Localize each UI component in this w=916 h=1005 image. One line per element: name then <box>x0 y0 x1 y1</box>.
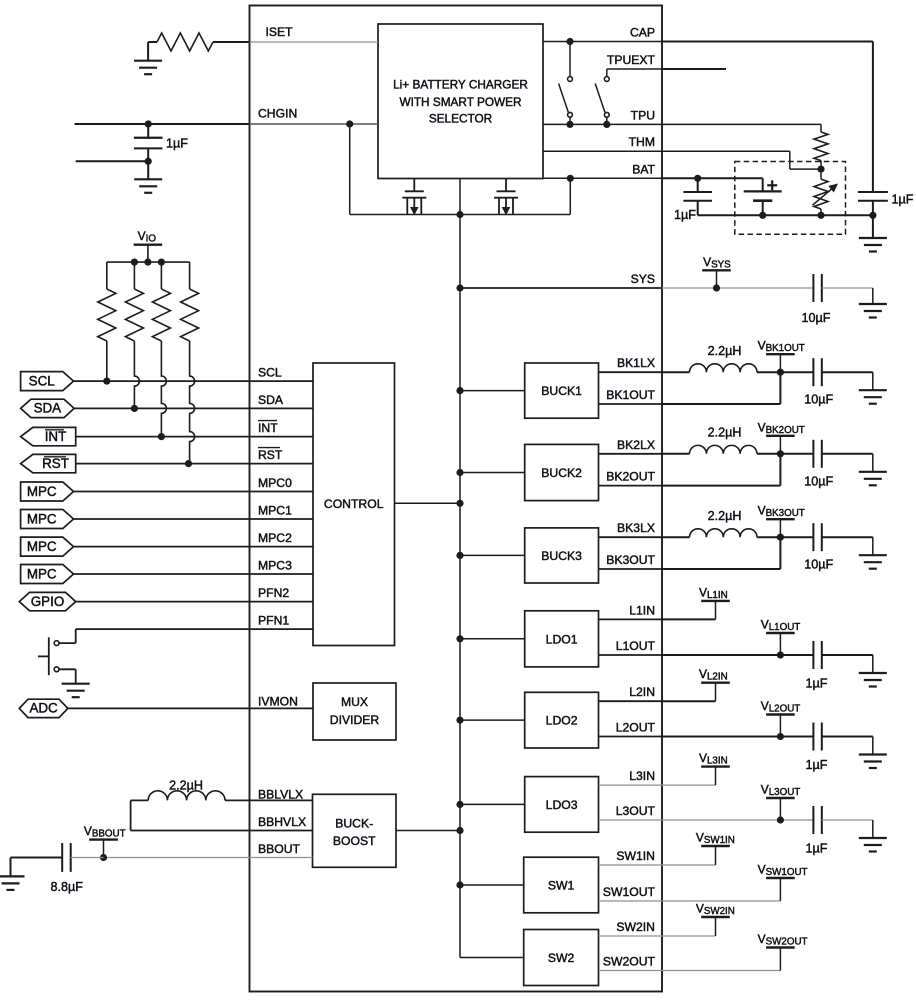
wire BK1OUT internal <box>599 403 663 405</box>
svg-text:MPC3: MPC3 <box>258 559 292 573</box>
node VBK3OUT <box>777 534 784 541</box>
svg-text:BK3OUT: BK3OUT <box>606 553 655 567</box>
svg-text:BUCK2: BUCK2 <box>541 466 582 480</box>
transistor Q2 <box>505 179 507 192</box>
resistor RP3 <box>160 262 162 289</box>
wire L2IN external <box>662 700 716 702</box>
svg-text:INT: INT <box>258 421 278 435</box>
capacitor C_BK2 10uF <box>812 440 814 468</box>
wire BBOUT <box>104 857 313 859</box>
svg-text:SCL: SCL <box>258 366 282 380</box>
wire SW1OUT external <box>662 900 780 902</box>
thermistor arrow <box>813 188 834 205</box>
svg-text:RST: RST <box>42 456 69 471</box>
node SYS rail junction <box>456 284 463 291</box>
svg-text:SELECTOR: SELECTOR <box>429 112 492 126</box>
node CHGIN return junction <box>145 158 152 165</box>
wire L3IN internal <box>599 784 663 786</box>
transistor Q1 <box>413 179 415 192</box>
node rail-BUCK2 <box>456 469 463 476</box>
svg-text:L1IN: L1IN <box>629 603 655 617</box>
wire rail to SW1 <box>460 884 524 886</box>
wire TPUEXT stub <box>662 68 726 70</box>
svg-text:DIVIDER: DIVIDER <box>330 713 380 727</box>
wire CAP internal <box>543 41 662 43</box>
svg-text:BK2OUT: BK2OUT <box>606 470 655 484</box>
wire BBLVLX <box>225 799 313 801</box>
capacitor C_L3 1uF <box>812 806 814 834</box>
wire SYS external <box>662 287 813 289</box>
wire THM external <box>662 150 790 152</box>
flag RST <box>21 454 76 472</box>
node rail junctions <box>759 212 766 219</box>
svg-text:BAT: BAT <box>632 162 655 176</box>
resistor R_T fixed <box>814 132 828 161</box>
ground C_BK3 <box>859 554 887 556</box>
wire BK1LX to inductor <box>662 371 690 373</box>
svg-text:SCL: SCL <box>29 373 55 388</box>
svg-text:L2IN: L2IN <box>629 685 655 699</box>
svg-text:BK2LX: BK2LX <box>617 438 655 452</box>
wire BK3LX to inductor <box>662 536 690 538</box>
node VBBOUT <box>100 854 107 861</box>
wire TPU internal <box>543 123 662 125</box>
ground C_BK2 <box>859 471 887 473</box>
wire rail to BUCK2 <box>460 472 525 474</box>
wire RP4 to RST with hops <box>190 341 195 464</box>
wire cap to ground BK2 <box>822 453 873 455</box>
svg-text:1µF: 1µF <box>806 758 828 772</box>
block MUX DIVIDER <box>313 683 396 740</box>
wire SW2OUT external <box>662 970 780 972</box>
wire charger bottom to rail <box>459 179 461 215</box>
svg-text:SW2IN: SW2IN <box>616 920 655 934</box>
wire BK3OUT internal <box>599 568 663 570</box>
svg-text:SW1: SW1 <box>548 879 575 893</box>
node RP1-SCL <box>103 378 110 385</box>
battery pack dashed box <box>735 162 846 235</box>
node rail-CONTROL <box>456 500 463 507</box>
wire BK3LX internal <box>599 536 663 538</box>
block BUCK2 <box>525 444 599 500</box>
node S2-TPU junction <box>603 121 610 128</box>
svg-text:BOOST: BOOST <box>333 834 376 848</box>
wire THM internal <box>543 150 662 152</box>
wire TPU external <box>662 123 821 125</box>
node rail-SYS junction <box>456 211 463 218</box>
svg-text:BBOUT: BBOUT <box>258 842 301 856</box>
battery BT1 <box>762 178 764 191</box>
resistor RP4 <box>189 262 191 289</box>
wire SYS cap to ground <box>822 287 873 289</box>
flag GPIO <box>19 592 75 610</box>
svg-text:8.8µF: 8.8µF <box>51 880 84 894</box>
wire BK2OUT internal <box>599 485 663 487</box>
svg-text:MPC1: MPC1 <box>258 504 292 518</box>
node CHGIN internal junction <box>346 120 353 127</box>
wire CAP down right side <box>872 42 874 193</box>
block SW1 <box>524 857 599 913</box>
wire SW1OUT internal <box>599 900 663 902</box>
capacitor C_SYS 10uF <box>812 274 814 302</box>
wire RP1 to SCL <box>106 341 108 381</box>
wire RST <box>76 463 313 465</box>
node VBK1OUT <box>777 369 784 376</box>
switch S1 CAP-TPU <box>569 42 571 77</box>
svg-text:ADC: ADC <box>29 701 58 716</box>
ground C_BK1 <box>859 389 887 391</box>
wire BAT internal <box>543 177 662 179</box>
node rail-BUCK3 <box>456 552 463 559</box>
capacitor C_L2 1uF <box>812 723 814 751</box>
wire L3IN external <box>662 784 716 786</box>
ground C_L3 <box>859 837 887 839</box>
wire BK1OUT loop <box>662 403 780 405</box>
wire GPIO-PFN2 <box>76 601 313 603</box>
node VL2OUT <box>777 733 784 740</box>
capacitor C_CHGIN 1uF <box>147 124 149 138</box>
ground pushbutton <box>62 683 90 685</box>
node CHGIN cap junction <box>145 120 152 127</box>
node RP2-SDA <box>131 405 138 412</box>
wire ISET internal <box>250 41 379 43</box>
wire to ground <box>147 161 149 179</box>
ground R_ISET <box>134 60 162 62</box>
block BUCK-BOOST <box>313 794 397 867</box>
node RP4-RST <box>185 460 192 467</box>
flag ADC <box>19 699 68 717</box>
node S1-TPU junction <box>566 121 573 128</box>
flag MPC1 <box>21 510 74 529</box>
Li+ battery charger block <box>378 24 543 179</box>
svg-text:CHGIN: CHGIN <box>258 107 297 121</box>
wire ISET resistor leads <box>148 41 157 43</box>
wire SYS vertical rail <box>459 215 461 958</box>
svg-text:SW2: SW2 <box>548 951 575 965</box>
block LDO1 <box>525 611 599 667</box>
svg-text:PFN1: PFN1 <box>258 614 289 628</box>
svg-text:LDO1: LDO1 <box>546 632 578 646</box>
wire VIO bus <box>107 261 190 263</box>
wire SW1IN external <box>662 864 716 866</box>
svg-text:10µF: 10µF <box>804 474 833 488</box>
wire L1IN external <box>662 618 716 620</box>
wire rail to LDO2 <box>460 719 525 721</box>
ground C_BB <box>0 875 25 877</box>
svg-text:SDA: SDA <box>258 393 284 407</box>
wire FET source rail <box>350 214 571 216</box>
wire rail to BUCK1 <box>460 390 525 392</box>
capacitor C_BK1 10uF <box>812 358 814 386</box>
block BUCK3 <box>525 528 599 583</box>
capacitor C_BAT 1uF <box>697 178 699 192</box>
svg-text:Li+ BATTERY CHARGER: Li+ BATTERY CHARGER <box>393 77 528 91</box>
wire CONTROL to rail <box>395 502 461 504</box>
flag MPC2 <box>21 537 74 556</box>
node RP3-INT <box>158 433 165 440</box>
wire BK2OUT loop <box>662 485 780 487</box>
capacitor C_BK3 10uF <box>812 523 814 551</box>
node rail-LDO3 <box>456 801 463 808</box>
wire CAP external <box>662 41 873 43</box>
svg-text:GPIO: GPIO <box>31 594 64 609</box>
wire SYS internal <box>460 287 662 289</box>
node rail-BUCKBOOST <box>456 827 463 834</box>
svg-text:TPU: TPU <box>631 108 655 122</box>
ground C_SYS <box>859 303 887 305</box>
flag MPC0 <box>21 482 74 501</box>
wire SW2OUT internal <box>599 970 663 972</box>
wire BK1LX internal <box>599 371 663 373</box>
wire BB inductor loop <box>131 799 149 801</box>
svg-text:INT: INT <box>45 429 67 444</box>
svg-text:MPC: MPC <box>27 566 57 581</box>
svg-text:1µF: 1µF <box>674 208 696 222</box>
svg-text:2.2µH: 2.2µH <box>708 426 742 440</box>
inductor L_BB 2.2uH <box>148 791 225 801</box>
block BUCK1 <box>525 363 599 418</box>
svg-text:L1OUT: L1OUT <box>616 639 656 653</box>
node VL3OUT <box>777 816 784 823</box>
wire MPC2 <box>74 546 314 548</box>
wire BUCK-BOOST to rail <box>396 830 460 832</box>
svg-text:MPC2: MPC2 <box>258 531 292 545</box>
wire PFN1 <box>76 628 313 630</box>
wire INT <box>76 436 313 438</box>
wire R_T to node <box>820 161 822 170</box>
wire BAT to rail <box>569 178 571 214</box>
flag INT <box>21 427 76 445</box>
svg-text:LDO3: LDO3 <box>546 798 578 812</box>
wire BK2LX internal <box>599 453 663 455</box>
wire SDA <box>74 407 313 409</box>
wire pushbutton to ground <box>59 668 76 670</box>
svg-text:RST: RST <box>258 448 283 462</box>
svg-text:BUCK-: BUCK- <box>335 816 373 830</box>
svg-text:SW1OUT: SW1OUT <box>603 885 656 899</box>
svg-text:MUX: MUX <box>341 695 368 709</box>
wire ADC-IVMON <box>68 707 313 709</box>
wire L1IN internal <box>599 618 663 620</box>
wire RP3 to INT with hops <box>161 341 166 437</box>
block LDO3 <box>525 777 599 833</box>
svg-text:BK1LX: BK1LX <box>617 356 655 370</box>
svg-text:LDO2: LDO2 <box>546 714 578 728</box>
svg-text:10µF: 10µF <box>804 393 833 407</box>
wire L2OUT external <box>662 736 813 738</box>
pushbutton SW PFN1 <box>54 641 59 646</box>
ground C_CHGIN <box>134 178 162 180</box>
wire SCL <box>74 380 314 382</box>
label battery plus <box>767 184 777 186</box>
node VL1OUT <box>777 651 784 658</box>
wire rail to LDO3 <box>460 803 525 805</box>
node VSYS junction <box>713 284 720 291</box>
node rail-BUCK1 <box>456 387 463 394</box>
wire BK2LX to inductor <box>662 453 690 455</box>
wire cap to ground L2 <box>822 736 873 738</box>
ground right <box>859 237 887 239</box>
node BAT cap junction <box>694 175 701 182</box>
svg-text:MPC: MPC <box>27 539 57 554</box>
svg-text:CAP: CAP <box>630 26 655 40</box>
wire CHGIN input <box>75 123 250 125</box>
capacitor C_BB 8.8uF <box>11 857 63 859</box>
wire cap to ground L3 <box>822 819 873 821</box>
svg-text:2.2µH: 2.2µH <box>708 509 742 523</box>
resistor R_ISET <box>157 33 213 51</box>
node VBK2OUT <box>777 450 784 457</box>
svg-text:MPC: MPC <box>27 511 57 526</box>
svg-text:BUCK3: BUCK3 <box>541 549 582 563</box>
node rail-LDO2 <box>456 717 463 724</box>
svg-text:SDA: SDA <box>34 401 62 416</box>
wire L2OUT internal <box>599 736 663 738</box>
wire rail to LDO1 <box>460 638 525 640</box>
wire cap to ground L1 <box>822 654 873 656</box>
svg-text:CONTROL: CONTROL <box>324 497 384 511</box>
thermistor RT variable <box>820 169 822 179</box>
svg-text:BUCK1: BUCK1 <box>541 384 582 398</box>
svg-text:10µF: 10µF <box>802 311 831 325</box>
node CAP junction <box>566 38 573 45</box>
svg-text:MPC0: MPC0 <box>258 476 292 490</box>
svg-text:ISET: ISET <box>266 25 294 39</box>
wire CHGIN internal <box>250 123 379 125</box>
block CONTROL <box>313 363 395 646</box>
wire MPC0 <box>74 491 314 493</box>
flag MPC3 <box>21 565 74 584</box>
block SW2 <box>524 930 599 986</box>
inductor L2 2.2uH <box>690 445 758 453</box>
wire CHGIN return <box>76 160 149 162</box>
ground C_L1 <box>859 672 887 674</box>
svg-text:SW1IN: SW1IN <box>616 849 655 863</box>
node THM junction <box>817 166 824 173</box>
wire BAT external <box>662 177 763 179</box>
svg-text:1µF: 1µF <box>892 192 914 206</box>
svg-text:L3OUT: L3OUT <box>616 804 656 818</box>
wire CHGIN drop to FET rail <box>349 124 351 215</box>
resistor RP1 <box>106 262 108 289</box>
wire L2IN internal <box>599 700 663 702</box>
svg-text:BBLVLX: BBLVLX <box>258 787 303 801</box>
node rail-LDO1 <box>456 635 463 642</box>
block LDO2 <box>525 692 599 748</box>
switch S2 TPUEXT-TPU <box>606 69 608 76</box>
wire L3OUT external <box>662 819 813 821</box>
svg-text:TPUEXT: TPUEXT <box>607 53 656 67</box>
wire MPC3 <box>74 573 314 575</box>
wire L1OUT external <box>662 654 813 656</box>
inductor L1 2.2uH <box>690 364 758 372</box>
wire SW1IN internal <box>599 864 663 866</box>
svg-text:L2OUT: L2OUT <box>616 721 656 735</box>
wire L3OUT internal <box>599 819 663 821</box>
svg-text:1µF: 1µF <box>166 137 188 151</box>
svg-text:WITH SMART POWER: WITH SMART POWER <box>399 95 521 109</box>
flag SCL <box>21 372 74 391</box>
svg-text:L3IN: L3IN <box>629 769 655 783</box>
wire L1OUT internal <box>599 654 663 656</box>
svg-text:BK1OUT: BK1OUT <box>606 388 655 402</box>
IC outline U1 <box>250 6 663 992</box>
svg-text:SYS: SYS <box>631 272 655 286</box>
node BAT junction internal <box>567 175 574 182</box>
svg-text:10µF: 10µF <box>804 558 833 572</box>
svg-text:THM: THM <box>629 135 655 149</box>
node rail-SW1 <box>456 881 463 888</box>
resistor RP2 <box>133 262 135 289</box>
wire PFN1 to pushbutton <box>75 629 77 643</box>
svg-text:MPC: MPC <box>27 484 57 499</box>
wire C_BB to ground <box>10 858 12 877</box>
svg-text:PFN2: PFN2 <box>258 586 289 600</box>
svg-text:BK3LX: BK3LX <box>617 521 655 535</box>
wire inductor to node <box>757 371 813 373</box>
flag SDA <box>21 399 75 417</box>
wire MPC1 <box>74 518 314 520</box>
svg-text:IVMON: IVMON <box>258 694 298 708</box>
svg-text:1µF: 1µF <box>806 842 828 856</box>
capacitor C_L1 1uF <box>812 641 814 669</box>
wire SW2IN external <box>662 935 716 937</box>
node VIO bus junctions <box>131 259 138 266</box>
capacitor C_CAP 1uF right <box>858 191 888 193</box>
wire cap to ground BK3 <box>822 536 873 538</box>
ground C_L2 <box>859 753 887 755</box>
wire BK3OUT loop <box>662 568 780 570</box>
svg-text:2.2µH: 2.2µH <box>708 344 742 358</box>
wire SW2IN internal <box>599 935 663 937</box>
wire cap to ground BK1 <box>822 371 873 373</box>
svg-text:BBHVLX: BBHVLX <box>258 815 306 829</box>
wire RP2 to SDA with hop over SCL <box>134 341 139 408</box>
wire inductor to node <box>757 536 813 538</box>
wire rail to BUCK3 <box>460 554 525 556</box>
wire inductor to node <box>757 453 813 455</box>
svg-text:SW2OUT: SW2OUT <box>603 955 656 969</box>
wire battery bottom rail <box>698 214 873 216</box>
svg-text:2.2µH: 2.2µH <box>169 778 203 792</box>
inductor L3 2.2uH <box>690 529 758 537</box>
wire TPUEXT internal <box>607 68 662 70</box>
svg-text:1µF: 1µF <box>806 677 828 691</box>
